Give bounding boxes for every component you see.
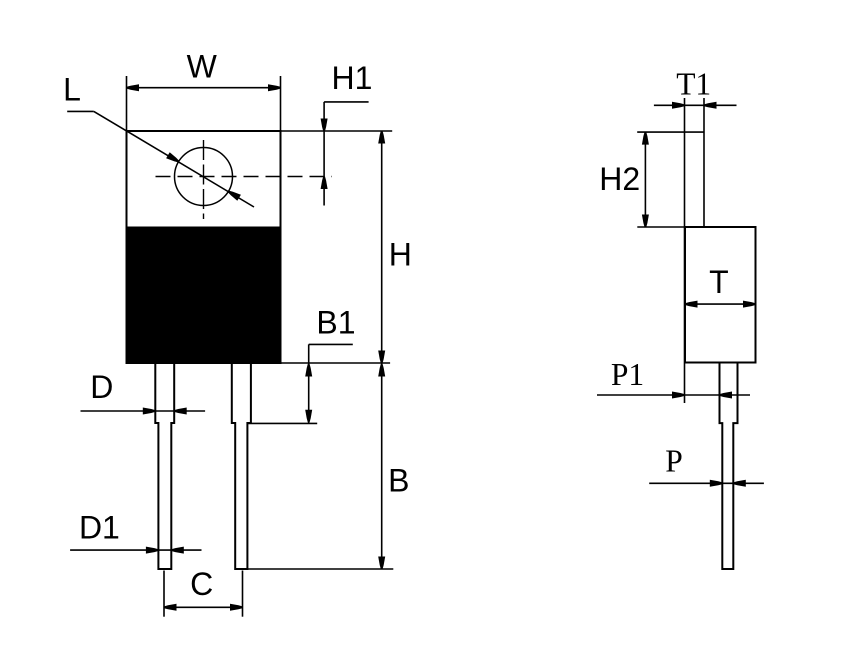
right lead outline bbox=[232, 363, 251, 569]
dimension P arrows bbox=[710, 480, 746, 487]
package tab outline (front view) bbox=[127, 131, 281, 228]
side tab left edge / P1 extension line bbox=[684, 98, 686, 403]
molded body (front view, filled) bbox=[127, 228, 281, 364]
dimension H2 line bbox=[644, 132, 646, 227]
dimension W line bbox=[127, 87, 281, 89]
mounting hole bbox=[175, 148, 233, 206]
body top extension line bbox=[637, 226, 685, 228]
svg-text:D: D bbox=[90, 369, 113, 405]
label D1 bbox=[79, 509, 120, 545]
dimension D1 line bbox=[70, 549, 201, 551]
svg-text:B1: B1 bbox=[316, 305, 355, 341]
dimension B1 arrows bbox=[305, 364, 312, 422]
label H bbox=[389, 237, 412, 273]
dimension H1 bracket bbox=[324, 102, 369, 206]
label T1 bbox=[676, 66, 711, 101]
label B bbox=[388, 462, 409, 498]
lead end extension line bbox=[247, 568, 393, 570]
tab top extension line bbox=[281, 130, 393, 132]
dimension T1 arrows bbox=[672, 102, 717, 109]
label T bbox=[709, 264, 729, 300]
label B1 bbox=[316, 305, 355, 341]
dimension W extension lines bbox=[127, 76, 281, 131]
leader line L bbox=[67, 111, 254, 207]
dimension C line bbox=[164, 606, 243, 608]
dimension H2 arrows bbox=[642, 132, 649, 227]
svg-text:P: P bbox=[665, 443, 683, 478]
svg-text:C: C bbox=[190, 566, 213, 602]
dimension D line bbox=[81, 410, 206, 412]
label H2 bbox=[599, 161, 640, 197]
dimension W arrows bbox=[127, 84, 281, 91]
svg-text:H1: H1 bbox=[332, 60, 373, 96]
dimension P1 line bbox=[597, 394, 750, 396]
hole centerline vertical bbox=[203, 140, 205, 219]
svg-text:H: H bbox=[389, 237, 412, 273]
svg-text:B: B bbox=[388, 462, 409, 498]
svg-text:W: W bbox=[187, 49, 218, 85]
tab top edge / H2 extension line bbox=[637, 131, 704, 133]
leader L arrows bbox=[166, 152, 241, 201]
label D bbox=[90, 369, 113, 405]
dimension P1 arrows bbox=[672, 392, 732, 399]
dimension H arrows bbox=[378, 131, 385, 363]
body bottom extension line bbox=[281, 362, 391, 364]
dimension T arrows bbox=[685, 301, 756, 308]
dimension P line bbox=[649, 482, 764, 484]
side tab right edge bbox=[703, 98, 705, 227]
svg-text:H2: H2 bbox=[599, 161, 640, 197]
svg-text:T1: T1 bbox=[676, 66, 711, 101]
dimension D arrows bbox=[143, 408, 187, 415]
label W bbox=[187, 49, 218, 85]
dimension B line bbox=[381, 363, 383, 569]
svg-text:D1: D1 bbox=[79, 509, 120, 545]
side lead outline bbox=[720, 363, 738, 570]
label P1 bbox=[611, 357, 644, 392]
svg-text:L: L bbox=[63, 72, 81, 108]
dimension B arrows bbox=[378, 364, 385, 569]
label L bbox=[63, 72, 81, 108]
label H1 bbox=[332, 60, 373, 96]
dimension B1 bracket bbox=[309, 344, 353, 423]
hole centerline horizontal bbox=[156, 176, 333, 178]
dimension C arrows bbox=[164, 604, 243, 611]
side body outline bbox=[685, 227, 756, 363]
dimension H line bbox=[381, 131, 383, 363]
dimension T line bbox=[685, 303, 756, 305]
svg-text:P1: P1 bbox=[611, 357, 644, 392]
left lead outline bbox=[155, 363, 174, 569]
dimension T1 line bbox=[654, 104, 737, 106]
svg-text:T: T bbox=[709, 264, 729, 300]
dimension H1 arrows bbox=[321, 119, 328, 190]
dimension D1 arrows bbox=[146, 547, 184, 554]
label C bbox=[190, 566, 213, 602]
dimension C extension lines bbox=[164, 571, 243, 617]
label P bbox=[665, 443, 683, 478]
lead step extension line bbox=[247, 422, 317, 424]
